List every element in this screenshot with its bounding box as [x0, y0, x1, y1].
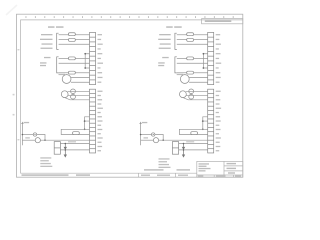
- wire: [76, 72, 90, 74]
- connector JB2: [208, 89, 214, 153]
- resistor RA4: [69, 71, 76, 74]
- label: [25, 137, 30, 138]
- wire: [189, 81, 208, 83]
- junction: [183, 143, 185, 145]
- label: [144, 137, 149, 138]
- zone ticks top: [26, 16, 234, 18]
- wire: [59, 58, 69, 60]
- JA2 pin labels: [98, 91, 103, 152]
- junction: [22, 134, 24, 136]
- wire: [186, 95, 208, 97]
- label DSA1: [59, 74, 66, 75]
- wire: [68, 90, 90, 92]
- junction: [84, 53, 86, 55]
- power net AVBAT: [21, 123, 23, 145]
- JB2 pin labels: [216, 91, 221, 152]
- motor MA1: [61, 91, 68, 98]
- resistor RA2: [69, 38, 76, 41]
- off-page arrow down: [64, 144, 66, 150]
- wire: [68, 95, 90, 97]
- current sense symbol: [152, 133, 155, 136]
- connector JB1: [208, 32, 214, 84]
- notes text block A: [40, 157, 52, 167]
- label: [68, 141, 76, 142]
- wire tie: [203, 54, 207, 68]
- capacitor CA1: [71, 89, 76, 94]
- junction: [183, 149, 185, 151]
- label DSB1: [177, 74, 184, 75]
- net labels group AA: [40, 34, 53, 49]
- connector JA1: [90, 32, 96, 84]
- JB1 pin labels: [216, 34, 222, 83]
- capacitor CB2: [189, 94, 194, 99]
- motor MB1: [180, 91, 187, 98]
- wire: [76, 39, 90, 41]
- wire: [179, 143, 208, 145]
- wire: [194, 58, 208, 60]
- net labels group BB: [158, 57, 169, 66]
- wire: [76, 58, 90, 60]
- wire: [141, 139, 154, 141]
- document number text: [205, 20, 232, 22]
- junction: [44, 139, 46, 141]
- bus bracket group AB: [175, 33, 177, 49]
- net label: [142, 122, 148, 123]
- connector PB1: [172, 142, 178, 155]
- wire loop: [179, 129, 207, 134]
- wire: [177, 43, 208, 45]
- inner border frame: [21, 20, 243, 173]
- outer border frame: [17, 14, 243, 177]
- resistor RB1: [187, 33, 194, 36]
- resistor RB3: [187, 57, 194, 60]
- wire: [59, 34, 69, 36]
- junction: [84, 128, 86, 130]
- junction: [162, 139, 164, 141]
- wire: [76, 34, 90, 36]
- wire: [194, 34, 208, 36]
- power flag: [139, 122, 141, 123]
- bus bracket group BA: [57, 57, 59, 73]
- wire: [59, 62, 90, 64]
- resistor RB4: [187, 71, 194, 74]
- wire: [22, 139, 35, 141]
- wire tie: [203, 117, 208, 129]
- bottom strip file path text: [22, 174, 189, 176]
- header text group AB: [166, 26, 182, 28]
- wire: [194, 72, 208, 74]
- wire: [186, 90, 208, 92]
- JA1 pin labels: [98, 34, 104, 83]
- bottom strip dividers: [139, 173, 176, 177]
- wire: [155, 135, 163, 141]
- net labels group BA: [40, 57, 51, 66]
- zone marks left: [13, 49, 20, 140]
- net label: [24, 122, 30, 123]
- wire tie: [85, 54, 89, 68]
- wire: [59, 43, 90, 45]
- wire: [194, 39, 208, 41]
- wire: [22, 134, 33, 136]
- lamp DSB2: [153, 138, 158, 143]
- wire: [177, 58, 187, 60]
- capacitor CB1: [189, 89, 194, 94]
- wire: [71, 81, 90, 83]
- power net BVBAT: [140, 123, 142, 145]
- wire: [65, 98, 90, 100]
- off-page arrow down: [182, 150, 184, 157]
- label: [186, 141, 194, 142]
- wire: [141, 134, 152, 136]
- junction: [203, 67, 205, 69]
- off-page arrow down: [64, 150, 66, 157]
- junction: [203, 53, 205, 55]
- junction: [202, 128, 204, 130]
- wire: [179, 149, 208, 151]
- document number box: [202, 19, 243, 24]
- capacitor CA2: [71, 94, 76, 99]
- title block text: [198, 163, 241, 177]
- title block: [197, 161, 243, 177]
- bus bracket group BB: [175, 57, 177, 73]
- wire: [70, 77, 89, 79]
- fuse FA1: [73, 132, 80, 135]
- junction: [65, 149, 67, 151]
- notes text block B: [159, 158, 171, 168]
- fuse FB1: [191, 132, 198, 135]
- current sense symbol: [33, 133, 36, 136]
- wire: [40, 139, 89, 141]
- junction: [202, 120, 204, 122]
- wire: [59, 39, 69, 41]
- connector JA2: [90, 89, 96, 153]
- wire: [60, 149, 89, 151]
- power flag: [21, 122, 23, 123]
- wire: [177, 62, 208, 64]
- header text group AA: [48, 26, 64, 28]
- wire tie: [85, 117, 90, 129]
- lamp DSA1: [62, 75, 71, 84]
- connector PA1: [54, 142, 60, 155]
- off-page arrow down: [182, 144, 184, 150]
- junction: [140, 134, 142, 136]
- wire: [59, 72, 69, 74]
- bus bracket group AA: [57, 33, 59, 49]
- wire: [177, 72, 187, 74]
- junction: [65, 143, 67, 145]
- junction: [84, 120, 86, 122]
- resistor RA1: [69, 33, 76, 36]
- disclaimer text: [144, 169, 190, 170]
- wire: [37, 135, 45, 141]
- wire: [159, 139, 208, 141]
- page corner shade: [6, 5, 17, 15]
- wire: [183, 98, 208, 100]
- lamp DSA2: [35, 138, 40, 143]
- resistor RB2: [187, 38, 194, 41]
- lamp DSB1: [180, 75, 189, 84]
- wire: [60, 143, 89, 145]
- wire: [177, 34, 187, 36]
- wire: [189, 77, 208, 79]
- net labels group AB: [158, 34, 171, 49]
- wire: [177, 39, 187, 41]
- junction: [84, 67, 86, 69]
- wire loop: [61, 129, 89, 134]
- resistor RA3: [69, 57, 76, 60]
